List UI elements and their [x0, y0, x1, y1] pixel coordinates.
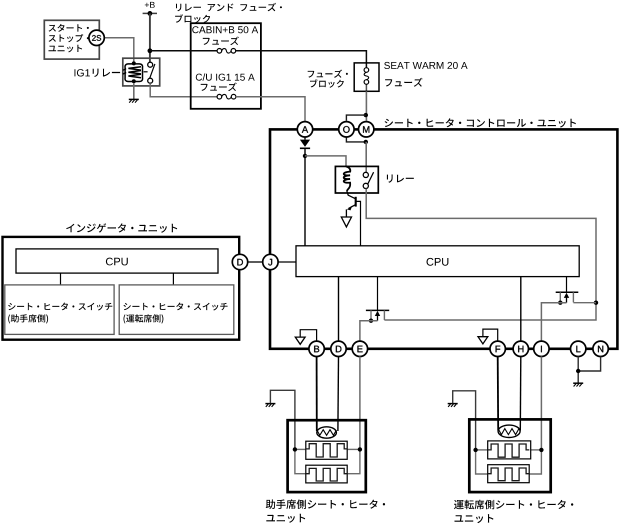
wire IG1 coil to ground — [133, 83, 135, 99]
box fuse block seat warm — [354, 63, 379, 91]
wire C/U IG1 fuse to connector A — [236, 97, 305, 122]
label relay jp — [387, 175, 414, 183]
label seat heater control unit — [385, 118, 576, 127]
wire FET Q3 drain to relay wire — [573, 302, 596, 304]
ic CPU of control unit — [296, 246, 579, 277]
junction diode branch — [303, 154, 307, 158]
switch box seat heater switch passenger — [5, 285, 114, 335]
wire CPU to connector D — [338, 277, 340, 342]
switch box seat heater switch driver — [119, 285, 234, 335]
thermistor passenger — [317, 427, 337, 438]
relay coil inside control unit — [344, 166, 351, 191]
wire connector I to heater elements — [540, 356, 542, 450]
label fuse block line2 — [310, 79, 344, 88]
relay IG1 coil with resistor — [125, 64, 143, 82]
wire branch to relay coil — [305, 156, 346, 167]
connector F — [490, 341, 505, 356]
label driver seat heater unit — [454, 500, 573, 510]
heater element passenger 2 — [306, 465, 347, 483]
ground triangle at connector F — [478, 337, 488, 344]
transistor Q1 collector from relay coil — [347, 191, 356, 199]
bracket connector B to body ground triangle — [300, 330, 316, 342]
ground triangle at connector B — [295, 337, 305, 344]
wire connector B to thermistor — [316, 356, 318, 431]
wire transistor base to CPU — [356, 201, 361, 245]
ground passenger heater — [265, 403, 275, 405]
connector 2S on start-stop unit — [89, 30, 104, 45]
label relay and fuse block line2 — [175, 14, 210, 23]
label fuse C/U IG1 15A — [196, 73, 255, 80]
ground IG1 relay coil — [129, 98, 139, 100]
wire bridge connector O to M — [346, 115, 365, 121]
wire +B stem down to IG1 relay switch — [149, 13, 151, 62]
fuse SEAT WARM 20A symbol — [364, 72, 369, 80]
relay IG1 box — [123, 58, 160, 86]
box passenger seat heater unit — [288, 420, 366, 492]
junction E heater right — [358, 447, 362, 451]
ic CPU of indicator unit — [16, 249, 218, 273]
transistor Q1 base bar — [355, 197, 357, 207]
relay box inside control unit — [335, 166, 378, 193]
wire CPU to FET Q2 gate — [377, 277, 379, 311]
wire L to ground — [577, 356, 579, 382]
connector L — [571, 341, 586, 356]
node +B terminal tick and junction — [143, 12, 157, 14]
wire connector D to J — [248, 261, 263, 263]
wire connector D to thermistor — [337, 356, 340, 431]
fuse CABIN+B 50A symbol — [222, 49, 232, 54]
connector B — [309, 341, 324, 356]
connector I — [534, 341, 549, 356]
wire 2S to IG1 relay coil — [104, 38, 134, 64]
connector A — [297, 122, 312, 137]
wire CPU to passenger switch — [60, 273, 62, 285]
label relay and fuse block line1 — [176, 3, 282, 12]
connector M — [359, 122, 374, 137]
wire diode to CPU — [304, 148, 306, 246]
wire N to ground — [578, 356, 600, 371]
wire A to diode — [304, 137, 306, 140]
bracket connector F to body ground triangle — [483, 329, 498, 341]
junction FET Q3 drain tap — [594, 301, 598, 305]
connector O — [339, 122, 354, 137]
wire ground to passenger heater elements — [270, 390, 295, 449]
junction FET Q2 source — [369, 319, 373, 323]
fuse C/U IG1 15A symbol — [222, 94, 232, 99]
label IG1 relay — [75, 69, 90, 76]
wire CABIN+B fuse to seat warm fuse — [236, 51, 367, 68]
wire M into relay switch — [365, 142, 367, 172]
wire ground to driver heater elements — [453, 391, 476, 450]
ground driver heater — [448, 403, 458, 405]
diode D1 below connector A — [300, 140, 310, 147]
wire connector H to thermistor — [519, 356, 522, 430]
wire CABIN+B feed — [150, 50, 217, 52]
heater element passenger 1 — [306, 441, 347, 459]
wire CPU to FET Q3 gate — [566, 277, 568, 293]
label fuse block line1 — [308, 70, 348, 78]
box indicator unit — [3, 237, 240, 340]
label fuse CABIN+B 50A — [192, 26, 258, 33]
wire FET Q3 source to connector I — [541, 303, 566, 342]
wire CPU to driver switch — [172, 273, 174, 285]
node +B battery feed label — [145, 2, 155, 8]
junction L N ground — [576, 369, 580, 373]
junction ground heater left — [293, 447, 297, 451]
connector J control unit — [263, 254, 278, 269]
junction ground driver heater left — [473, 448, 477, 452]
box relay and fuse block — [191, 23, 261, 109]
box start-stop unit — [44, 20, 99, 59]
wire FET Q2 source to connector E — [360, 321, 378, 342]
wire connector E to heater elements — [359, 356, 361, 449]
label fuse SEAT WARM 20A — [384, 62, 467, 69]
box driver seat heater unit — [469, 419, 550, 492]
transistor FET Q3 — [556, 291, 579, 293]
junction I heater right — [539, 448, 543, 452]
relay contact switch — [367, 172, 373, 185]
connector E — [352, 341, 367, 356]
junction M wire top — [364, 113, 368, 117]
box seat heater control unit — [270, 129, 617, 348]
wire connector F to thermistor — [497, 356, 500, 430]
wire connector J to CPU — [278, 261, 296, 263]
transistor Q1 emitter with arrow — [349, 205, 356, 209]
label passenger seat heater unit — [266, 499, 385, 509]
connector D2 — [331, 341, 346, 356]
junction FET Q3 source — [558, 301, 562, 305]
transistor FET Q2 — [366, 309, 389, 311]
thermistor driver — [498, 425, 520, 437]
ground L N of control unit — [573, 382, 583, 384]
heater element driver 1 — [488, 441, 531, 459]
wire seat warm fuse to connector M — [365, 91, 367, 121]
connector N — [593, 341, 608, 356]
wire IG1 switch to C/U IG1 fuse — [150, 83, 217, 97]
connector H — [513, 341, 528, 356]
label start-stop unit (start stop unit jp) — [49, 24, 89, 32]
heater element driver 2 — [488, 465, 530, 483]
wire CPU to connector H — [520, 277, 522, 342]
junction +B to CABIN fuse wire — [148, 48, 153, 53]
relay IG1 mechanical link dash — [144, 71, 148, 73]
ground triangle below transistor Q1 — [341, 217, 351, 227]
label indicator unit — [66, 223, 177, 233]
connector D indicator — [232, 254, 247, 269]
wire relay switch output to FET drains — [366, 189, 596, 320]
relay IG1 switch contact — [150, 64, 155, 79]
